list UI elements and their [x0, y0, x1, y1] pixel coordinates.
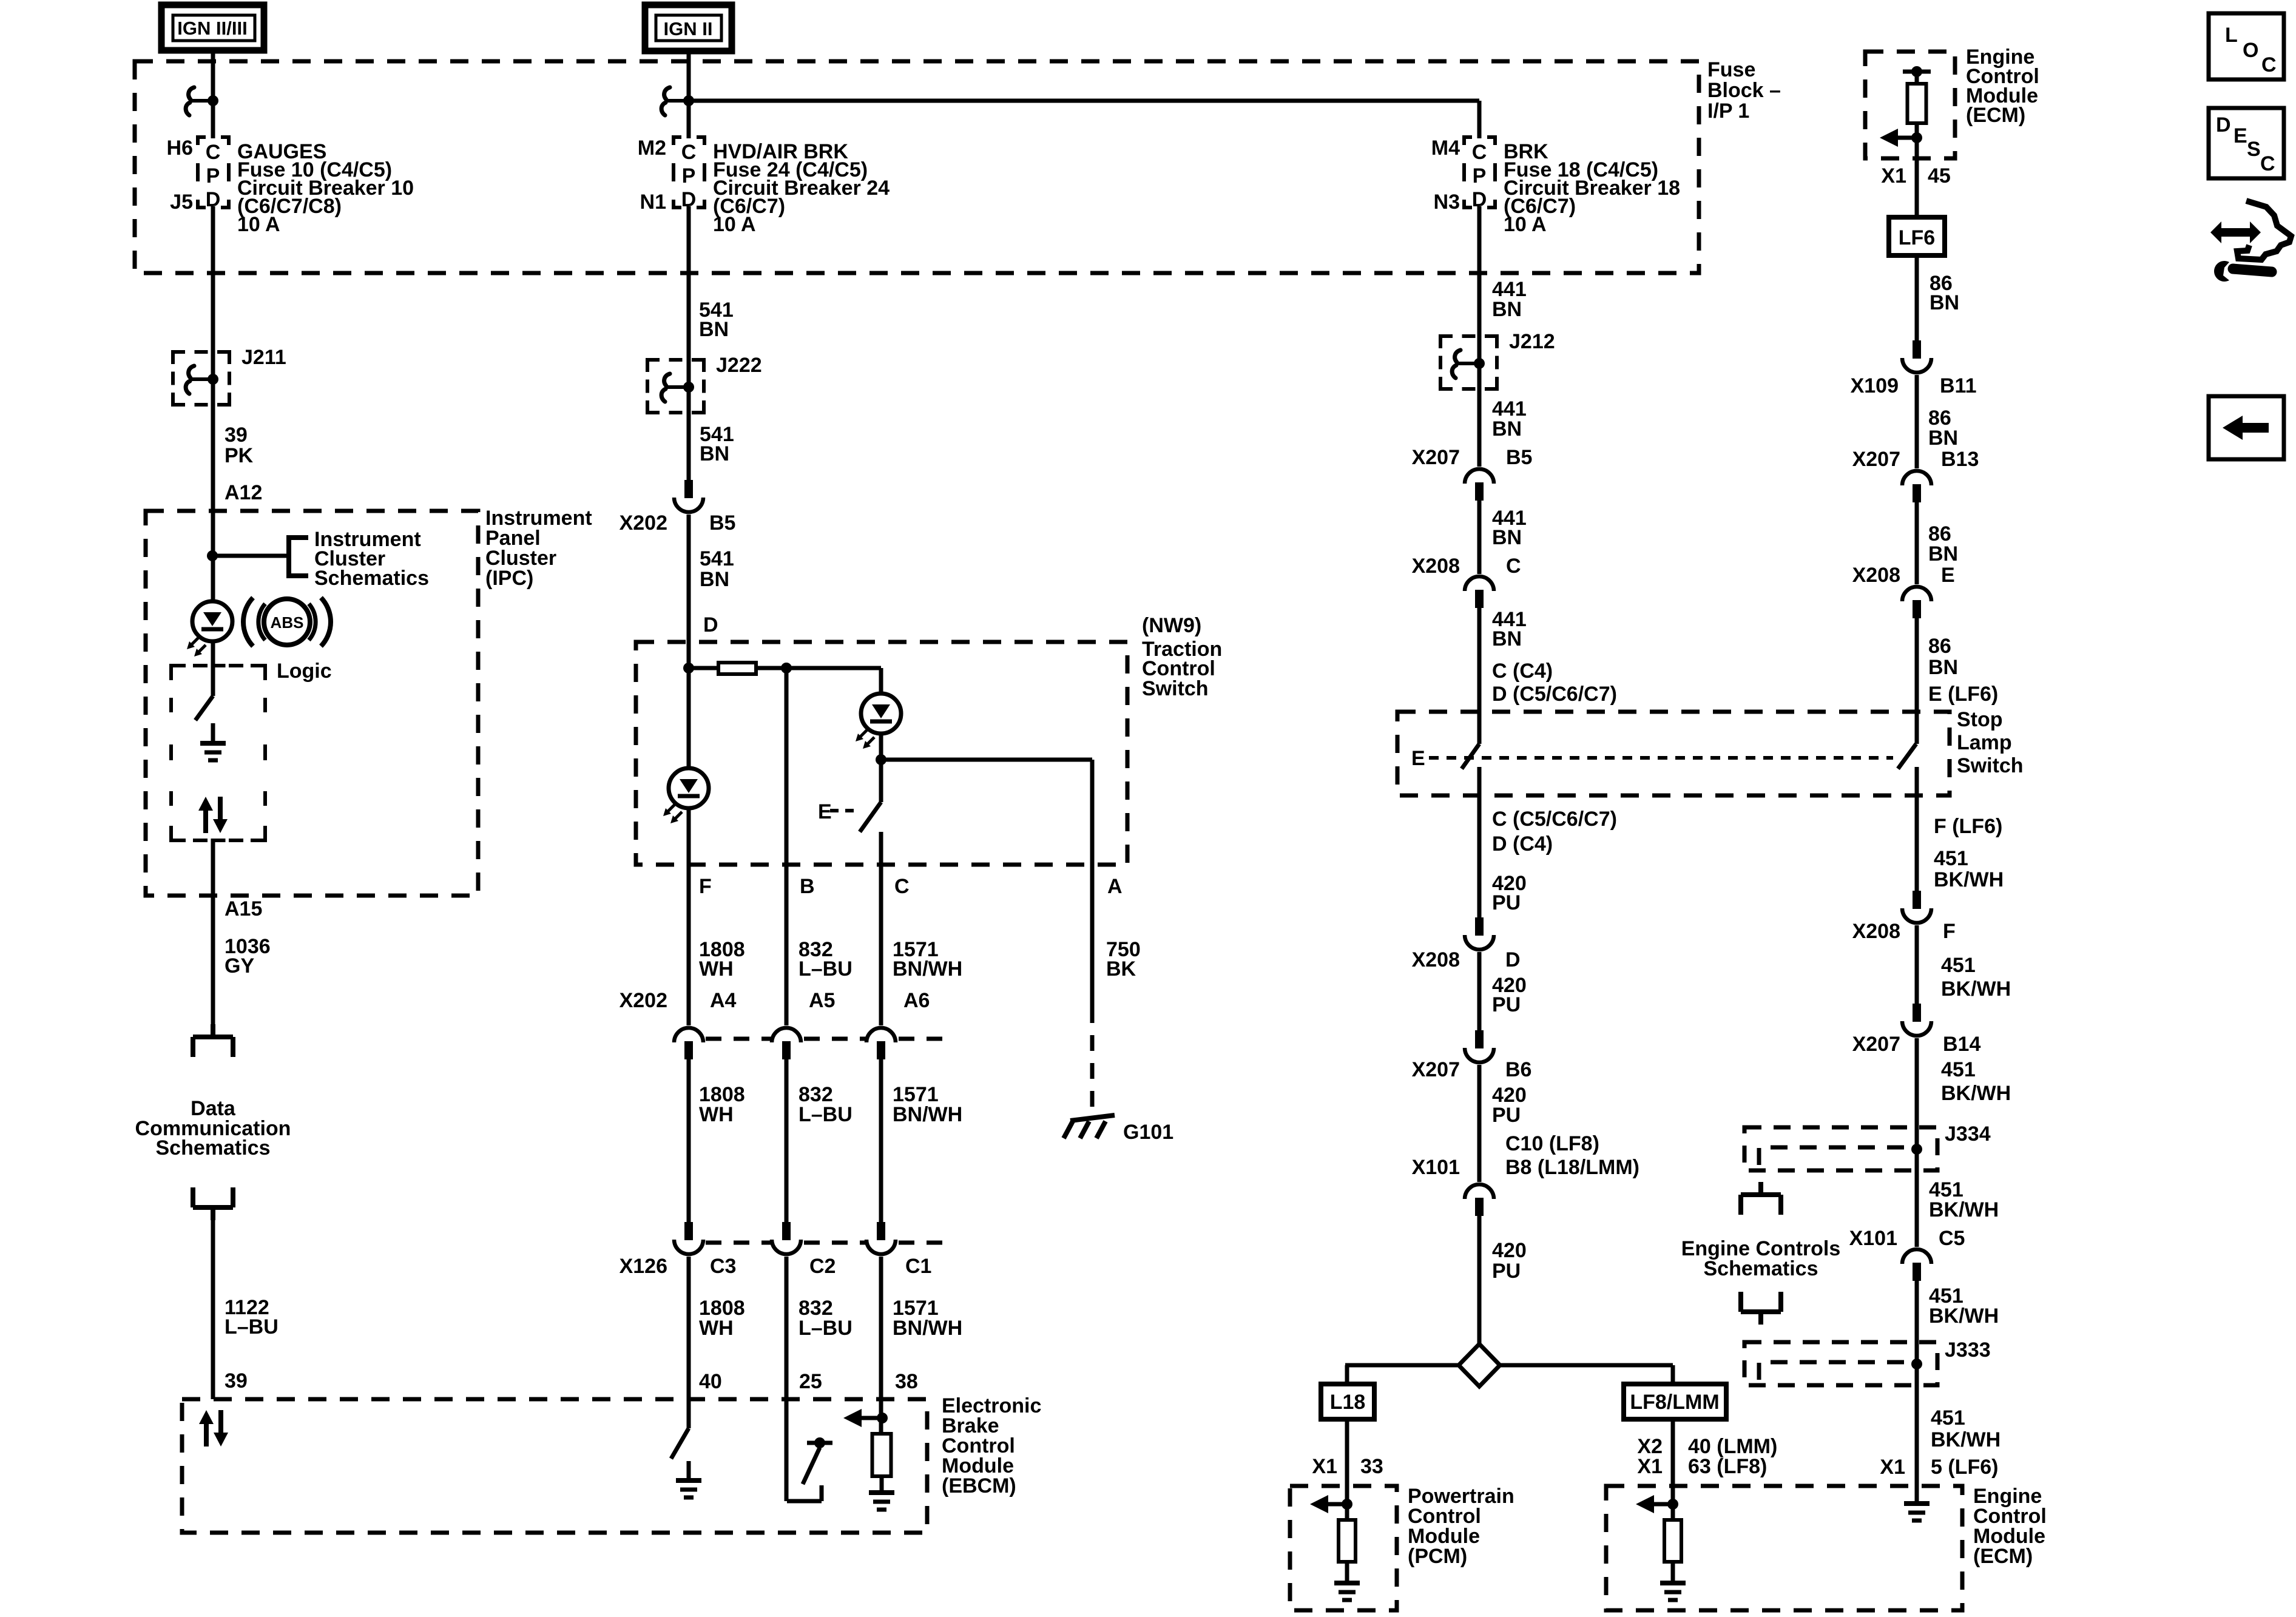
back arrow box: [2209, 396, 2284, 459]
off-page connector down: [211, 1024, 215, 1037]
svg-text:M4: M4: [1431, 137, 1460, 160]
connector row X126 C3 C2 C1: [684, 1222, 693, 1240]
svg-text:5 (LF6): 5 (LF6): [1931, 1456, 1998, 1479]
svg-text:C: C: [206, 141, 221, 164]
fuse block dashed box: [135, 61, 1699, 273]
fuse HVD/AIR BRK C/P/D: [674, 137, 704, 208]
svg-text:Schematics: Schematics: [156, 1136, 271, 1160]
svg-text:J211: J211: [241, 346, 286, 369]
DESC legend box: [2209, 108, 2284, 178]
svg-text:A5: A5: [809, 989, 835, 1012]
fuse GAUGES C/P/D: [198, 137, 229, 208]
Logic dashed box: [171, 666, 265, 840]
svg-text:C: C: [2260, 152, 2275, 175]
PCM dashed box: [1290, 1486, 1397, 1610]
svg-text:A4: A4: [710, 989, 737, 1012]
svg-text:PU: PU: [1492, 1104, 1521, 1127]
svg-text:63 (LF8): 63 (LF8): [1688, 1455, 1767, 1478]
svg-text:L: L: [2225, 24, 2238, 47]
svg-text:C5: C5: [1939, 1227, 1965, 1250]
svg-text:IGN II: IGN II: [664, 18, 713, 39]
svg-text:D: D: [2216, 113, 2231, 137]
svg-text:LF8/LMM: LF8/LMM: [1630, 1391, 1719, 1414]
IPC dashed box: [146, 511, 478, 896]
svg-text:I/P 1: I/P 1: [1707, 100, 1749, 123]
svg-text:(ECM): (ECM): [1973, 1545, 2033, 1568]
stop lamp switch dashed box: [1397, 712, 1950, 795]
svg-text:420: 420: [1492, 1239, 1527, 1262]
svg-text:B11: B11: [1940, 374, 1977, 397]
svg-text:BK/WH: BK/WH: [1929, 1305, 1999, 1328]
svg-text:L–BU: L–BU: [225, 1315, 279, 1338]
EBCM switch 40: [687, 1399, 691, 1428]
svg-text:Switch: Switch: [1957, 754, 2024, 777]
svg-text:Block –: Block –: [1707, 79, 1781, 102]
splice diamond: [1345, 1363, 1460, 1368]
logic ground: [211, 723, 215, 741]
svg-text:C: C: [681, 141, 697, 164]
svg-text:Stop: Stop: [1957, 708, 2003, 731]
bracket Instrument Cluster Schematics: [289, 538, 308, 576]
svg-text:ABS: ABS: [271, 613, 304, 632]
wire to PCM: [1345, 1419, 1349, 1505]
svg-text:B8 (L18/LMM): B8 (L18/LMM): [1505, 1156, 1639, 1179]
wire 451 3: [1915, 1038, 1919, 1247]
svg-text:Fuse: Fuse: [1707, 58, 1755, 81]
wire 39 PK lower: [211, 403, 215, 601]
off-page engine controls lower: [1738, 1292, 1743, 1312]
svg-text:A6: A6: [903, 989, 930, 1012]
off-page engine controls upper: [1758, 1182, 1763, 1195]
svg-text:C: C: [2261, 53, 2277, 76]
svg-text:X1: X1: [1881, 164, 1906, 187]
svg-text:A12: A12: [225, 481, 262, 504]
svg-text:E: E: [1411, 747, 1425, 770]
svg-text:25: 25: [799, 1370, 822, 1393]
svg-text:N3: N3: [1434, 191, 1460, 214]
wire X1 45: [1915, 138, 1919, 217]
svg-text:L–BU: L–BU: [799, 957, 853, 981]
svg-text:BN/WH: BN/WH: [893, 1103, 962, 1126]
connector X202 B5: [684, 480, 693, 498]
svg-text:10 A: 10 A: [1504, 213, 1547, 236]
svg-text:X1: X1: [1637, 1455, 1663, 1478]
connector X109 B11: [1913, 340, 1921, 359]
svg-text:E (LF6): E (LF6): [1928, 683, 1998, 706]
svg-text:H6: H6: [167, 137, 193, 160]
wire 86 BN 1: [1915, 255, 1919, 340]
svg-text:BK/WH: BK/WH: [1929, 1198, 1999, 1221]
harness routing icon: [2210, 221, 2261, 243]
svg-text:J5: J5: [170, 191, 193, 214]
svg-text:C1: C1: [905, 1255, 931, 1278]
svg-text:E: E: [2234, 124, 2247, 147]
wire 451 2: [1915, 925, 1919, 1004]
splice J222: [647, 360, 704, 413]
svg-text:(EBCM): (EBCM): [942, 1474, 1016, 1497]
wire fuse block to BRK fuse: [689, 99, 1479, 103]
svg-text:C: C: [1472, 141, 1487, 164]
svg-text:BN: BN: [700, 442, 729, 465]
traction control switch dashed box: [636, 642, 1127, 865]
svg-text:BK: BK: [1106, 957, 1136, 981]
svg-text:GY: GY: [225, 954, 254, 977]
node to IPC schematics: [207, 550, 218, 561]
svg-text:BN/WH: BN/WH: [893, 1317, 962, 1340]
svg-text:B: B: [800, 875, 815, 898]
svg-text:C (C5/C6/C7): C (C5/C6/C7): [1492, 808, 1617, 831]
wire 441 BN 3: [1477, 608, 1482, 744]
svg-text:X208: X208: [1412, 948, 1460, 971]
svg-text:IGN II/III: IGN II/III: [177, 18, 247, 39]
svg-text:Switch: Switch: [1142, 677, 1209, 700]
svg-text:(ECM): (ECM): [1966, 104, 2025, 127]
svg-text:F: F: [699, 875, 712, 898]
svg-text:E: E: [1941, 564, 1955, 587]
svg-text:B14: B14: [1943, 1033, 1980, 1056]
svg-text:BN: BN: [1928, 656, 1958, 679]
svg-text:39: 39: [225, 1369, 248, 1393]
svg-text:PU: PU: [1492, 891, 1521, 914]
connector X208 F: [1913, 891, 1921, 909]
wire F down: [687, 808, 691, 1025]
wire 541 BN lower: [687, 515, 691, 668]
wire 420 PU 4: [1477, 1216, 1482, 1346]
logic up-down arrows: [203, 809, 208, 833]
svg-text:C: C: [894, 875, 910, 898]
svg-text:WH: WH: [699, 1317, 734, 1340]
EBCM switch 25: [787, 1499, 822, 1504]
wire to L18: [1345, 1365, 1349, 1384]
svg-text:X207: X207: [1852, 1033, 1900, 1056]
wire to A15: [211, 842, 215, 1037]
svg-text:Logic: Logic: [277, 660, 332, 683]
ABS indicator lamp: [192, 601, 232, 641]
off-page connector up: [191, 1187, 195, 1207]
svg-text:BK/WH: BK/WH: [1941, 1082, 2011, 1105]
svg-text:X101: X101: [1849, 1227, 1897, 1250]
svg-text:Schematics: Schematics: [1704, 1257, 1818, 1280]
svg-text:33: 33: [1360, 1455, 1383, 1478]
svg-text:M2: M2: [638, 137, 666, 160]
wire 86 BN 4: [1915, 618, 1919, 744]
svg-text:D (C4): D (C4): [1492, 832, 1553, 856]
wire A down: [1090, 760, 1095, 1007]
resistor in switch: [689, 666, 718, 670]
wire 1122 L-BU: [211, 1207, 215, 1399]
splice J333: [1744, 1342, 1937, 1385]
circuit breaker hook col2: [664, 87, 670, 100]
svg-text:X207: X207: [1412, 1058, 1460, 1081]
svg-text:BK/WH: BK/WH: [1941, 977, 2011, 1001]
svg-text:39: 39: [225, 424, 248, 447]
stop lamp switch blade left: [1462, 744, 1479, 769]
ABS warning symbol: [243, 598, 253, 646]
wire 451 4: [1915, 1281, 1919, 1365]
wire 451 to ECM ground: [1915, 1364, 1919, 1504]
svg-text:J212: J212: [1509, 330, 1555, 353]
svg-text:F (LF6): F (LF6): [1934, 815, 2002, 838]
svg-text:J334: J334: [1945, 1122, 1991, 1146]
svg-text:PK: PK: [225, 444, 254, 467]
wire 451 below switch: [1915, 767, 1919, 891]
engine tag LF6: [1889, 217, 1945, 255]
svg-text:C: C: [1506, 555, 1521, 578]
svg-text:BN: BN: [1492, 627, 1522, 650]
wire 86 BN 3: [1915, 502, 1919, 584]
wires to EBCM: [687, 1257, 691, 1399]
svg-text:P: P: [1473, 164, 1487, 187]
svg-text:451: 451: [1941, 1058, 1976, 1081]
svg-text:PU: PU: [1492, 993, 1521, 1016]
svg-text:J333: J333: [1945, 1338, 1991, 1362]
svg-text:BN: BN: [699, 318, 729, 341]
svg-text:C10 (LF8): C10 (LF8): [1505, 1132, 1599, 1155]
svg-text:C2: C2: [809, 1255, 836, 1278]
wire to BRK fuse: [1477, 101, 1482, 138]
svg-text:BN/WH: BN/WH: [893, 957, 962, 981]
ECM bottom dashed box: [1606, 1486, 1962, 1610]
svg-text:WH: WH: [699, 957, 734, 981]
wire B down: [785, 668, 789, 1025]
wire to A branch: [881, 758, 1092, 762]
svg-text:X208: X208: [1852, 564, 1900, 587]
ECM pull-up resistor: [1667, 1499, 1678, 1510]
power feed tag IGN II: [645, 5, 732, 51]
stop lamp switch blade right: [1898, 744, 1916, 769]
splice J334: [1744, 1127, 1937, 1170]
svg-text:A: A: [1107, 875, 1123, 898]
svg-text:P: P: [682, 164, 696, 187]
wire 420 PU 2: [1477, 952, 1482, 1030]
EBCM up-down arrows: [204, 1422, 209, 1447]
wires to X126: [687, 1059, 691, 1222]
svg-text:40: 40: [699, 1370, 722, 1393]
svg-text:10 A: 10 A: [713, 213, 756, 236]
wire C down: [879, 832, 883, 1025]
splice J212: [1440, 336, 1497, 389]
svg-text:N1: N1: [640, 191, 666, 214]
logic switch: [211, 641, 215, 696]
power feed tag IGN II/III: [161, 5, 264, 50]
traction indicator lamp left: [687, 668, 691, 768]
wire 541 BN mid: [687, 411, 691, 480]
svg-text:X101: X101: [1412, 1156, 1460, 1179]
svg-text:451: 451: [1941, 954, 1976, 977]
EBCM dashed box: [182, 1399, 927, 1533]
svg-text:86: 86: [1928, 635, 1951, 658]
wire to LF8/LMM: [1671, 1365, 1675, 1384]
connector X208 D: [1475, 917, 1484, 936]
svg-text:BN: BN: [1492, 298, 1522, 321]
svg-text:45: 45: [1928, 164, 1951, 187]
wire lamp to node: [879, 734, 883, 760]
wire 39 PK upper: [211, 206, 215, 405]
svg-text:451: 451: [1934, 847, 1968, 870]
wire 441 BN: [1477, 388, 1482, 467]
wire IGN II feed: [687, 51, 691, 138]
connector X207 B14: [1913, 1004, 1921, 1022]
svg-text:D: D: [1505, 948, 1521, 971]
wire 441 BN 2: [1477, 501, 1482, 574]
svg-text:541: 541: [700, 547, 734, 570]
ECM internal ground: [1904, 1501, 1930, 1506]
svg-text:Schematics: Schematics: [314, 567, 429, 590]
switch gang dashed line: [1429, 756, 1893, 760]
svg-text:E: E: [818, 800, 832, 823]
svg-text:C3: C3: [710, 1255, 736, 1278]
LOC legend box: [2209, 13, 2284, 79]
svg-text:X208: X208: [1412, 555, 1460, 578]
svg-text:B13: B13: [1941, 448, 1979, 471]
svg-text:(IPC): (IPC): [485, 567, 533, 590]
ECM top dashed box: [1865, 52, 1955, 158]
svg-text:X208: X208: [1852, 920, 1900, 943]
svg-text:10 A: 10 A: [237, 213, 280, 236]
svg-text:BN: BN: [1492, 417, 1522, 441]
svg-text:L–BU: L–BU: [799, 1317, 853, 1340]
wire 420 PU 3: [1477, 1065, 1482, 1182]
svg-text:X207: X207: [1852, 448, 1900, 471]
svg-text:X1: X1: [1880, 1456, 1905, 1479]
engine tag L18: [1321, 1384, 1374, 1419]
svg-text:G101: G101: [1123, 1121, 1173, 1144]
svg-text:L–BU: L–BU: [799, 1103, 853, 1126]
svg-text:X202: X202: [620, 989, 667, 1012]
svg-text:B5: B5: [1506, 446, 1532, 469]
circuit breaker hook col1: [189, 87, 194, 100]
svg-text:O: O: [2243, 39, 2258, 62]
wire to ECM bottom: [1671, 1419, 1675, 1505]
svg-text:PU: PU: [1492, 1260, 1521, 1283]
traction indicator lamp right: [879, 668, 883, 694]
ground G101: [1070, 1115, 1115, 1121]
EBCM sensing resistor 38: [877, 1413, 888, 1423]
svg-text:X207: X207: [1412, 446, 1460, 469]
fuse BRK C/P/D: [1464, 137, 1495, 208]
svg-text:451: 451: [1931, 1406, 1965, 1430]
svg-text:X109: X109: [1851, 374, 1899, 397]
svg-text:L18: L18: [1330, 1391, 1366, 1414]
svg-text:BK/WH: BK/WH: [1934, 868, 2004, 891]
svg-text:B5: B5: [709, 511, 735, 535]
svg-text:Lamp: Lamp: [1957, 731, 2012, 754]
svg-text:WH: WH: [699, 1103, 734, 1126]
svg-text:(NW9): (NW9): [1142, 614, 1201, 637]
svg-text:38: 38: [895, 1370, 918, 1393]
node D: [683, 663, 694, 673]
splice J211: [173, 352, 229, 405]
svg-text:J222: J222: [716, 354, 762, 377]
wire 420 PU top: [1477, 767, 1482, 917]
svg-text:BN: BN: [700, 568, 729, 591]
svg-text:B6: B6: [1505, 1058, 1531, 1081]
svg-text:D (C5/C6/C7): D (C5/C6/C7): [1492, 683, 1617, 706]
svg-text:P: P: [206, 164, 220, 187]
svg-text:D: D: [703, 613, 718, 636]
svg-text:C (C4): C (C4): [1492, 660, 1553, 683]
svg-text:X1: X1: [1312, 1455, 1337, 1478]
svg-text:F: F: [1943, 920, 1956, 943]
svg-text:LF6: LF6: [1899, 226, 1935, 249]
wire 541 BN upper: [687, 206, 691, 413]
ECM internal source: [1911, 66, 1922, 77]
svg-text:BN: BN: [1928, 542, 1958, 565]
wire 86 BN 2: [1915, 375, 1919, 468]
svg-text:BN: BN: [1930, 291, 1959, 314]
wire IGN II/III feed: [211, 50, 215, 138]
svg-text:A15: A15: [225, 897, 262, 920]
svg-text:BK/WH: BK/WH: [1931, 1428, 2001, 1451]
svg-text:BN: BN: [1928, 427, 1958, 450]
svg-text:(PCM): (PCM): [1408, 1545, 1467, 1568]
connector X207 B6: [1475, 1030, 1484, 1048]
engine tag LF8/LMM: [1624, 1384, 1726, 1419]
node B: [781, 663, 792, 673]
svg-text:X202: X202: [620, 511, 667, 535]
traction switch contact: [879, 760, 883, 802]
wire 441 BN upper: [1477, 206, 1482, 389]
svg-text:S: S: [2247, 138, 2261, 161]
svg-text:X126: X126: [620, 1255, 667, 1278]
svg-text:BN: BN: [1492, 526, 1522, 549]
PCM pull-up resistor: [1342, 1499, 1352, 1510]
